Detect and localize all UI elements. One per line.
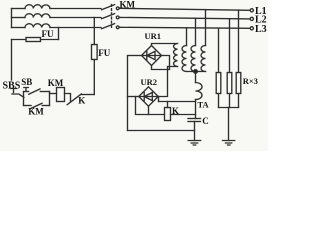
wire resistor bus (219, 107, 239, 109)
wire control tap from line3 (58, 28, 60, 40)
wire winding bottom (158, 67, 177, 97)
wire fuse row right (41, 39, 59, 41)
wire UR2 bottom stub (148, 106, 150, 114)
wire K fixed (81, 94, 94, 96)
terminal L2 (250, 17, 253, 20)
contact KM pole3 terminal (116, 26, 119, 29)
svg-text:L3: L3 (255, 24, 267, 35)
wire UR1 right loop (152, 56, 170, 70)
button SBS actuator (11, 89, 16, 93)
wire outer bus (127, 56, 129, 131)
capacitor C top plate (188, 118, 201, 120)
inductor coil line2 (25, 14, 50, 18)
wire control tap from line2 (93, 18, 95, 45)
button SB actuator (24, 88, 29, 92)
relay coil K (165, 108, 171, 121)
wire rail A (159, 101, 196, 103)
svg-text:K: K (172, 106, 179, 116)
svg-text:FU: FU (98, 48, 110, 58)
wire coil tap line2 (195, 18, 197, 45)
wire KM coil out (65, 94, 71, 102)
wire K coil right (171, 114, 196, 116)
rectifier UR1 diamond (142, 46, 162, 66)
wire UR1 left to bus (128, 55, 142, 57)
inductor phase coil b (191, 46, 195, 72)
wire line3 right (119, 27, 250, 28)
wire SB right (40, 91, 49, 93)
wire fuse row left (12, 39, 27, 41)
wire SB left (24, 91, 29, 93)
KM linkage dashed (111, 5, 113, 29)
contact KM pole2 blade (102, 14, 115, 19)
svg-text:KM: KM (48, 78, 64, 88)
contact KM pole2 terminal (116, 16, 119, 19)
contact K blade (67, 94, 81, 105)
wire line1 to switch (50, 8, 101, 10)
wire resistor tap line3 (218, 28, 220, 72)
contact KM aux blade (31, 103, 42, 108)
ground right (223, 141, 235, 146)
svg-text:KM: KM (28, 106, 44, 116)
wire resistor tap line1 (238, 10, 240, 72)
wire TA down (195, 100, 197, 119)
wire rail B (128, 130, 195, 132)
svg-text:FU: FU (42, 29, 54, 39)
wire control left drop (11, 40, 13, 81)
svg-text:C: C (202, 116, 209, 126)
wire resistor bus to ground (228, 108, 230, 141)
node left star bus (11, 9, 13, 28)
svg-text:SBS: SBS (3, 80, 21, 91)
wire line2 to switch (50, 17, 101, 19)
wire cap to ground (194, 122, 196, 141)
wire star join (187, 71, 206, 73)
wire phase line L3 left (12, 27, 26, 29)
contact KM pole1 terminal (116, 7, 119, 10)
fuse FU vertical (92, 45, 98, 60)
wire coil tap line1 (205, 10, 207, 46)
inductor coil line1 (25, 5, 50, 9)
capacitor C bottom plate (188, 121, 201, 123)
diode UR1 (142, 51, 162, 59)
wire KM aux left (24, 105, 32, 107)
contact KM pole3 blade (102, 24, 115, 29)
wire to KM coil (50, 93, 57, 95)
wire parallel block right riser (49, 92, 51, 106)
inductor control winding (174, 44, 178, 67)
svg-text:SB: SB (21, 77, 32, 87)
resistor R c (236, 73, 241, 94)
wire phase line L1 left (12, 8, 26, 10)
diode UR2 (139, 92, 158, 100)
wire UR2 left (128, 96, 139, 98)
wire parallel block left riser (23, 92, 25, 106)
resistor R a (216, 73, 221, 94)
svg-text:UR1: UR1 (145, 31, 162, 41)
terminal L3 (250, 27, 253, 30)
svg-text:K: K (78, 96, 85, 106)
rectifier UR2 diamond (139, 87, 158, 106)
wire KM aux right (42, 105, 49, 107)
transformer TA winding (196, 83, 203, 100)
wire line1 right (119, 8, 250, 10)
inductor phase coil a (182, 46, 186, 72)
wire coil tap line3 (186, 28, 188, 46)
button SBS blade (12, 94, 24, 97)
button SB blade (29, 89, 40, 94)
inductor coil line3 (25, 24, 50, 28)
coil KM (57, 88, 65, 102)
svg-text:TA: TA (198, 100, 210, 110)
wire star down (195, 73, 197, 83)
wire inner bracket (136, 97, 165, 115)
wire UR1 top to coil (152, 44, 178, 46)
resistor R b (227, 73, 232, 94)
svg-text:KM: KM (120, 0, 136, 10)
node star point (194, 70, 198, 74)
wire K coil top stub (167, 102, 169, 108)
wire below vertical fuse (93, 60, 95, 95)
wire line2 right (119, 17, 250, 19)
wire resistor tap line2 (229, 19, 231, 73)
fuse FU horizontal (26, 38, 41, 42)
ground left (188, 141, 201, 146)
wire UR2 right stub (158, 97, 160, 102)
inductor phase coil c (201, 46, 206, 72)
svg-text:R×3: R×3 (243, 76, 258, 86)
svg-text:UR2: UR2 (141, 77, 158, 87)
wire resistor bottoms (219, 94, 239, 108)
wire phase line L2 left (12, 17, 26, 19)
terminal L1 (250, 9, 253, 12)
wire line3 to switch (50, 27, 101, 29)
contact KM pole1 blade (102, 5, 115, 10)
